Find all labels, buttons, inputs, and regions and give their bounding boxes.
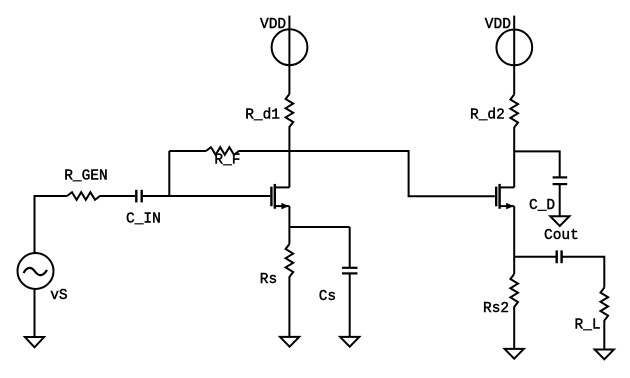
capacitor C_IN	[136, 190, 141, 203]
ground (below R_L)	[595, 350, 614, 360]
wire R_d1 to drain M1	[288, 130, 290, 187]
wire R_GEN to C_IN	[103, 195, 135, 197]
wire C_D to ground	[559, 185, 561, 217]
wire source M2 down to node	[513, 206, 515, 257]
ground (below Rs)	[280, 337, 299, 347]
resistor R_GEN	[67, 192, 103, 200]
resistor R_L	[601, 288, 609, 324]
svg-text:R_d1: R_d1	[245, 108, 280, 124]
wire node to Cs top	[349, 227, 351, 267]
wire C_IN to gate M1	[143, 195, 270, 197]
capacitor Cs	[342, 268, 358, 274]
resistor Rs2	[510, 257, 518, 310]
svg-text:R_F: R_F	[214, 152, 240, 168]
wire source M1 down to node	[288, 206, 290, 227]
VDD supply 2	[496, 16, 532, 95]
wire node to Cs	[289, 226, 349, 228]
wire drain node to C_D	[514, 151, 560, 176]
svg-text:Cout: Cout	[544, 228, 579, 244]
svg-text:VDD: VDD	[260, 17, 286, 33]
wire node to Cout capacitor	[514, 256, 555, 258]
capacitor Cout	[557, 250, 562, 263]
voltage source vS	[18, 253, 54, 289]
capacitor C_D	[553, 177, 568, 184]
resistor Rs	[286, 227, 294, 280]
wire vS top to R_GEN	[35, 196, 68, 253]
svg-text:Cs: Cs	[319, 289, 336, 305]
wire Rs2 to ground	[513, 310, 515, 349]
ground (below Cs)	[340, 337, 359, 347]
svg-text:Rs: Rs	[260, 272, 277, 288]
svg-text:VDD: VDD	[485, 17, 511, 33]
resistor R_d1	[286, 94, 294, 130]
wire Cs to ground	[349, 274, 351, 337]
wire Cout to R_L	[563, 257, 605, 288]
ground (below vS)	[25, 337, 44, 347]
svg-text:Rs2: Rs2	[483, 301, 509, 317]
wire vS bottom to ground	[34, 289, 36, 337]
wire Rs to ground	[288, 280, 290, 337]
svg-text:R_d2: R_d2	[470, 107, 505, 123]
wire to R_F	[169, 150, 206, 152]
transistor M1	[271, 184, 289, 210]
transistor M2	[496, 184, 514, 210]
resistor R_F	[206, 147, 242, 155]
ground (below C_D)	[550, 216, 569, 226]
svg-text:vS: vS	[50, 288, 67, 304]
svg-text:C_IN: C_IN	[126, 212, 161, 228]
wire R_L to ground	[603, 324, 605, 350]
svg-text:R_L: R_L	[575, 318, 601, 334]
resistor R_d2	[510, 95, 518, 131]
VDD supply 1	[272, 16, 308, 94]
wire R_d2 to drain M2	[513, 131, 515, 188]
ground (below Rs2)	[505, 349, 524, 359]
wire gate node up to R_F	[168, 151, 170, 196]
svg-text:C_D: C_D	[529, 198, 555, 214]
wire R_F to corner, down, to gate M2	[242, 151, 495, 196]
svg-text:R_GEN: R_GEN	[64, 169, 108, 185]
